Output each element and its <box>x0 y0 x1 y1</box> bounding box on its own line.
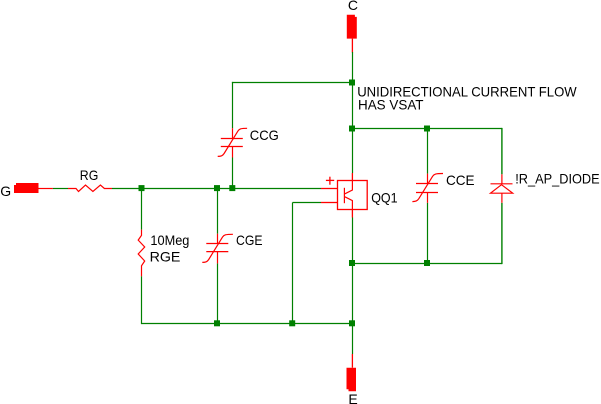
wire CCG bottom <box>232 158 234 189</box>
svg-text:RG: RG <box>80 167 99 183</box>
junction bottom rail E <box>349 320 355 326</box>
wire diode bottom <box>501 203 503 264</box>
capacitor CCE <box>412 174 443 203</box>
svg-text:!R_AP_DIODE: !R_AP_DIODE <box>515 171 600 187</box>
capacitor CCG <box>218 128 247 157</box>
wire CCG top <box>232 82 234 128</box>
pin G lead <box>39 188 53 190</box>
wire bottom rail <box>142 323 353 325</box>
diode !R_AP_DIODE <box>491 174 513 203</box>
resistor RG <box>68 185 112 192</box>
wire right rail bottom <box>353 263 503 265</box>
transistor QQ1 <box>321 173 367 218</box>
junction CCE top <box>424 126 430 132</box>
pin G <box>14 183 39 193</box>
wire QQ1 base2 <box>293 202 322 204</box>
junction right rail top <box>349 126 355 132</box>
wire emitter <box>352 218 354 264</box>
wire right rail top <box>353 128 503 130</box>
pin C <box>347 15 357 39</box>
QQ1 plus mark <box>326 177 334 185</box>
svg-text:QQ1: QQ1 <box>371 190 398 206</box>
junction CCG <box>229 185 235 191</box>
svg-text:G: G <box>0 183 11 199</box>
wire to pin E <box>352 324 354 355</box>
wire base2 down <box>292 203 294 324</box>
wire top rail <box>232 82 353 84</box>
wire emitter low <box>352 264 354 324</box>
svg-text:C: C <box>348 0 358 13</box>
svg-text:E: E <box>348 391 357 404</box>
junction top rail <box>349 80 355 86</box>
wire collector top <box>352 52 354 83</box>
wire CGE top <box>217 189 219 234</box>
wire diode top <box>501 128 503 174</box>
wire CCE bottom <box>427 203 429 264</box>
junction RGE <box>139 185 145 191</box>
QQ1 inner symbol <box>344 181 352 210</box>
wire RGE top <box>141 188 143 230</box>
resistor RGE <box>138 230 145 277</box>
pin C lead <box>351 39 353 53</box>
junction emitter rail <box>349 260 355 266</box>
wire gate rail 1 <box>53 188 68 190</box>
wire CCE top <box>427 129 429 174</box>
svg-text:CGE: CGE <box>236 232 263 248</box>
wire collector mid <box>352 83 354 129</box>
junction CCE bottom <box>424 260 430 266</box>
svg-text:RGE: RGE <box>150 249 181 265</box>
svg-text:HAS VSAT: HAS VSAT <box>358 96 424 112</box>
pin E <box>347 368 357 392</box>
junction bottom rail left <box>214 320 220 326</box>
wire RGE bottom <box>141 276 143 324</box>
svg-text:10Meg: 10Meg <box>150 232 189 248</box>
junction bottom rail mid <box>289 320 295 326</box>
svg-text:CCE: CCE <box>446 172 475 188</box>
pin E lead <box>351 354 353 368</box>
wire gate rail 2 <box>112 188 321 190</box>
wire CGE bottom <box>217 263 219 323</box>
junction CGE <box>214 185 220 191</box>
wire to QQ1 collector <box>352 129 354 174</box>
svg-text:CCG: CCG <box>250 127 279 143</box>
capacitor CGE <box>202 234 233 264</box>
